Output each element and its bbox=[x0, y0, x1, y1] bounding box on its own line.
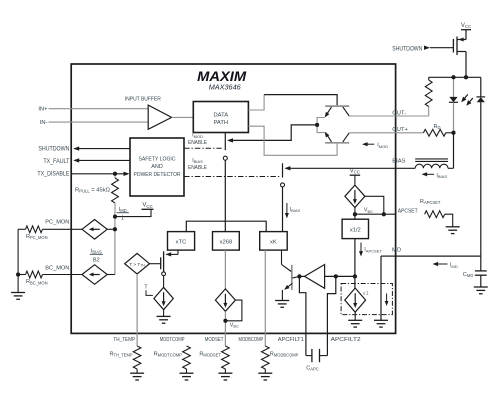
svg-text:T: T bbox=[144, 285, 148, 291]
svg-text:RMODSET: RMODSET bbox=[199, 352, 221, 358]
svg-text:APCSET: APCSET bbox=[398, 208, 418, 214]
transistor M1 shutdown PMOS bbox=[452, 39, 454, 53]
resistor (damping, OUT-) bbox=[428, 77, 430, 80]
power VCC (reference) bbox=[350, 174, 361, 176]
wire MODSET pin bbox=[224, 311, 226, 346]
svg-text:B2: B2 bbox=[93, 257, 100, 263]
switch IBIAS enable bbox=[282, 163, 284, 177]
svg-text:IMD: IMD bbox=[450, 263, 458, 269]
photodiode MD bbox=[480, 77, 482, 97]
inductor L1 (bias choke) bbox=[396, 167, 416, 169]
current annotation IMOD bbox=[364, 143, 374, 145]
wire x268 to modset source bbox=[224, 250, 226, 289]
wire MD to box edge bbox=[381, 255, 396, 257]
ground (CMD) bbox=[474, 286, 488, 288]
switch IMOD enable bbox=[224, 133, 226, 151]
wire IAPCSET bbox=[354, 239, 356, 289]
wire amp input line bbox=[325, 275, 355, 277]
current annotation IAPCSET bbox=[360, 243, 362, 255]
svg-text:IBIAS: IBIAS bbox=[290, 207, 301, 213]
collector to APC node bbox=[292, 277, 299, 278]
junction laser rail 2 bbox=[464, 75, 468, 79]
wire junction overlay dots bbox=[113, 172, 117, 176]
wire APCFILT1 bbox=[299, 276, 306, 355]
current source reference (VCC) bbox=[345, 185, 365, 207]
current annotation IBIAS (choke) bbox=[424, 173, 435, 175]
node mirror tap bbox=[113, 227, 117, 231]
block SAFETY LOGIC AND POWER DETECTOR bbox=[130, 138, 184, 196]
block DATA PATH bbox=[193, 102, 248, 133]
svg-text:VBC: VBC bbox=[230, 322, 239, 328]
svg-text:ENABLE: ENABLE bbox=[188, 140, 207, 146]
node APCFILT2 tap bbox=[334, 274, 338, 278]
current source MODSET bbox=[215, 289, 235, 311]
wire BIAS into switch (arrow) bbox=[286, 167, 396, 169]
svg-text:APCFILT2: APCFILT2 bbox=[331, 337, 361, 343]
svg-text:DATA: DATA bbox=[213, 112, 228, 118]
current annotation IBIAS (into xK) bbox=[286, 203, 288, 216]
current source IMD/1 (PC monitor mirror) bbox=[82, 220, 107, 240]
svg-text:xTC: xTC bbox=[176, 239, 187, 245]
ground (x1 source) bbox=[354, 312, 356, 320]
svg-text:RTH_TEMP: RTH_TEMP bbox=[109, 352, 132, 358]
power VCC (pull-up) bbox=[115, 209, 151, 216]
wire monitor ground rail bbox=[17, 229, 19, 292]
wire buffer to data path bbox=[172, 116, 194, 118]
ground (TH_TEMP) bbox=[130, 372, 144, 374]
svg-text:IN+: IN+ bbox=[38, 107, 48, 113]
dashed box (MD mirror) bbox=[341, 284, 392, 315]
svg-text:TX_FAULT: TX_FAULT bbox=[43, 159, 69, 165]
svg-text:BIAS: BIAS bbox=[392, 158, 405, 164]
capacitor CMD bbox=[480, 256, 482, 271]
collector bottom to OUT+ bbox=[343, 133, 349, 142]
capacitor CAPC bbox=[306, 355, 312, 357]
svg-text:OUT+: OUT+ bbox=[392, 127, 408, 133]
svg-text:1: 1 bbox=[121, 216, 124, 222]
ground (MODTCOMP) bbox=[180, 372, 194, 374]
node APC error bbox=[297, 274, 301, 278]
comparator T &gt; TTH bbox=[125, 253, 150, 274]
wire IBIAS ENABLE (dash-dot) bbox=[184, 176, 279, 178]
node common emitter bbox=[315, 123, 319, 127]
resistor RBC_MON bbox=[18, 274, 25, 276]
transistor Q-bias (base bar) bbox=[291, 265, 293, 290]
emitter top (arrow) bbox=[317, 118, 325, 125]
emitter with arrow to ground bbox=[285, 283, 292, 289]
svg-text:x1/2: x1/2 bbox=[350, 227, 361, 233]
current annotation (MD mirror) bbox=[386, 294, 388, 304]
svg-text:SHUTDOWN: SHUTDOWN bbox=[38, 147, 69, 153]
svg-text:IMD: IMD bbox=[119, 207, 127, 213]
ground (MODSET) bbox=[218, 372, 232, 374]
svg-text:MAXIM: MAXIM bbox=[197, 69, 247, 84]
wire PC_MON bbox=[43, 228, 83, 230]
wire data path upper output bbox=[248, 95, 264, 110]
wire VBC feedback bbox=[225, 300, 242, 321]
ground (MODBCOMP) bbox=[258, 372, 272, 374]
svg-text:RAPCSET: RAPCSET bbox=[420, 199, 441, 205]
svg-text:x1: x1 bbox=[363, 291, 369, 297]
resistor RPC_MON bbox=[18, 228, 25, 230]
ground (RAPCSET) bbox=[446, 226, 460, 228]
laser light emission arrows bbox=[463, 94, 468, 100]
block xTC bbox=[168, 232, 195, 251]
transistor Q-bottom (base bar) bbox=[325, 142, 349, 144]
wire MODBCOMP pin bbox=[264, 250, 266, 346]
node RPULL/VCC junction bbox=[113, 215, 117, 219]
current annotation IMD bbox=[435, 263, 448, 265]
svg-text:TX_DISABLE: TX_DISABLE bbox=[37, 172, 69, 178]
wire TX_FAULT with arrow bbox=[75, 159, 130, 161]
transistor Q-thermal (gate bars) bbox=[160, 257, 162, 269]
resistor RMODTCOMP bbox=[183, 346, 191, 369]
svg-text:PC_MON: PC_MON bbox=[45, 220, 69, 226]
emitter bottom (arrow) bbox=[317, 125, 325, 133]
svg-text:ENABLE: ENABLE bbox=[188, 165, 207, 171]
block x268 bbox=[213, 232, 240, 251]
wire APCFILT2 bbox=[327, 276, 335, 355]
svg-text:x268: x268 bbox=[220, 239, 233, 245]
ground (bias transistor) bbox=[275, 300, 289, 302]
ground (thermal source) bbox=[163, 310, 165, 317]
svg-text:TH_TEMP: TH_TEMP bbox=[113, 337, 135, 343]
svg-text:IMOD: IMOD bbox=[192, 133, 203, 139]
svg-text:MODBCOMP: MODBCOMP bbox=[239, 337, 264, 343]
svg-text:IN-: IN- bbox=[40, 120, 48, 126]
power VCC (top right) bbox=[461, 29, 471, 31]
svg-text:IMOD: IMOD bbox=[377, 143, 388, 149]
wire to IMD mirror bbox=[107, 228, 115, 230]
wire source to VBC rail bbox=[354, 208, 356, 215]
laser diode LD bbox=[453, 77, 455, 97]
wire BC_MON bbox=[43, 274, 83, 276]
svg-text:RD: RD bbox=[433, 124, 440, 130]
wire TH_TEMP sense bbox=[136, 274, 138, 346]
svg-text:SAFETY LOGIC: SAFETY LOGIC bbox=[139, 156, 176, 162]
switch contact (thermal) bbox=[162, 272, 166, 276]
svg-text:CAPC: CAPC bbox=[306, 365, 319, 371]
junction TX_DISABLE / RPULL bbox=[113, 172, 117, 176]
resistor RMODSET bbox=[222, 346, 230, 369]
block xK bbox=[260, 232, 288, 251]
wire xTC to thermal switch bbox=[177, 250, 179, 254]
wire tail current into switch (arrow) bbox=[229, 125, 318, 140]
wire IN+ bbox=[49, 108, 149, 110]
svg-text:SHUTDOWN: SHUTDOWN bbox=[392, 46, 422, 52]
wire source right branch bbox=[365, 196, 384, 214]
svg-text:PATH: PATH bbox=[213, 120, 228, 126]
ground (monitor resistors) bbox=[11, 292, 25, 294]
collector top to OUT- bbox=[343, 107, 349, 116]
node VBC bbox=[223, 319, 227, 323]
wire xK to base bbox=[281, 250, 283, 264]
wire mirror feedback (vertical) bbox=[114, 217, 116, 275]
resistor RPULL = 45k bbox=[114, 174, 116, 178]
svg-text:VCC: VCC bbox=[142, 203, 152, 209]
svg-text:IAPCSET: IAPCSET bbox=[364, 247, 382, 253]
current source I(T) thermal bbox=[154, 287, 173, 309]
wire data path lower output bbox=[248, 126, 337, 155]
resistor RTH_TEMP bbox=[133, 346, 141, 369]
wire shutdown to gate (arrow) bbox=[424, 46, 430, 50]
junction laser rail 1 bbox=[452, 75, 456, 79]
node VBC rail left bbox=[353, 212, 357, 216]
wire comparator to gate bbox=[150, 263, 161, 265]
svg-text:VCC: VCC bbox=[350, 169, 360, 175]
svg-text:CMD: CMD bbox=[463, 272, 473, 278]
block x1/2 bbox=[342, 219, 368, 238]
wire IMOD ENABLE (dash-dot) bbox=[184, 147, 222, 149]
svg-text:MD: MD bbox=[392, 247, 401, 253]
svg-text:VCC: VCC bbox=[461, 23, 471, 29]
svg-text:IBIAS: IBIAS bbox=[91, 248, 102, 254]
svg-text:INPUT BUFFER: INPUT BUFFER bbox=[125, 96, 161, 102]
svg-text:RMODTCOMP: RMODTCOMP bbox=[154, 352, 183, 358]
svg-text:RMODBCOMP: RMODBCOMP bbox=[270, 352, 299, 358]
svg-text:VBC: VBC bbox=[364, 208, 373, 214]
resistor RMODBCOMP bbox=[262, 346, 270, 369]
svg-text:POWER DETECTOR: POWER DETECTOR bbox=[134, 172, 181, 178]
node OUT+/laser cathode bbox=[452, 131, 456, 135]
wire IN- bbox=[49, 121, 149, 123]
svg-text:MODTCOMP: MODTCOMP bbox=[160, 337, 185, 343]
svg-text:IBIAS: IBIAS bbox=[436, 173, 447, 179]
transistor Q-top (base bar) bbox=[325, 105, 349, 107]
svg-text:APCFILT1: APCFILT1 bbox=[278, 337, 304, 343]
wire OUT- bbox=[396, 107, 429, 117]
wire MD external bbox=[396, 255, 481, 257]
junction BC_MON rail bbox=[16, 273, 20, 277]
svg-text:IBIAS: IBIAS bbox=[192, 158, 203, 164]
current source x1 bbox=[345, 288, 366, 312]
op-amp APC error amplifier bbox=[305, 265, 325, 289]
svg-text:MODSET: MODSET bbox=[205, 337, 224, 343]
svg-text:xK: xK bbox=[270, 239, 277, 245]
wire VBC rail to APCSET pin bbox=[355, 213, 396, 215]
resistor RD bbox=[396, 132, 424, 134]
wire TX_DISABLE with arrow into safety logic bbox=[71, 173, 128, 175]
current source IBIAS/B2 (BC monitor mirror) bbox=[82, 265, 107, 285]
svg-text:RPC_MON: RPC_MON bbox=[26, 234, 48, 240]
wire laser anode rail bbox=[429, 76, 481, 78]
svg-text:BC_MON: BC_MON bbox=[45, 265, 69, 271]
wire MD sense vertical bbox=[380, 256, 382, 320]
IC boundary box U1 MAX3646 bbox=[71, 64, 395, 333]
ground (MD sense) bbox=[374, 319, 388, 321]
node VBC rail right bbox=[382, 212, 386, 216]
wire to IBIAS mirror bbox=[107, 274, 115, 276]
svg-text:RPULL = 45kΩ: RPULL = 45kΩ bbox=[75, 187, 111, 193]
svg-text:AND: AND bbox=[151, 164, 163, 170]
wire DAC bus bbox=[186, 221, 266, 231]
svg-text:RBC_MON: RBC_MON bbox=[26, 279, 48, 285]
wire SHUTDOWN with arrow bbox=[75, 148, 130, 150]
svg-text:OUT-: OUT- bbox=[392, 111, 406, 117]
svg-text:MAX3646: MAX3646 bbox=[209, 83, 242, 92]
node IAPCSET junction bbox=[353, 274, 357, 278]
